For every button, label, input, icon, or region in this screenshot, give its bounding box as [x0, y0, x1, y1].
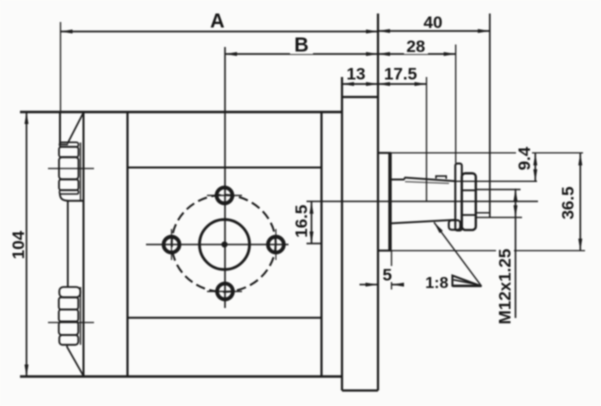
- dimension 36.5 line: [579, 153, 581, 250]
- shaft nut: [462, 173, 476, 230]
- svg-text:13: 13: [347, 64, 366, 83]
- shaft boss bottom edge: [378, 250, 391, 252]
- label 13: [344, 64, 368, 82]
- mounting plate bottom edge: [342, 389, 378, 391]
- shaft taper top edge: [405, 178, 456, 182]
- shaft axis centerline: [307, 200, 539, 202]
- flange square top line: [128, 167, 322, 169]
- dimension 16.5 arrows: [310, 202, 314, 244]
- rear cover left edge between nuts: [67, 201, 69, 287]
- body section line rear: [126, 112, 128, 377]
- extension line for 28: [455, 45, 457, 164]
- bolt hole bottom tick: [207, 290, 242, 292]
- tie-rod nut upper: band 4: [60, 190, 79, 194]
- pump body bottom edge: [20, 375, 341, 378]
- label 1:8: [423, 273, 450, 290]
- dimension A line: [61, 31, 379, 33]
- svg-text:1:8: 1:8: [425, 275, 448, 292]
- label B: [290, 36, 313, 54]
- svg-text:17.5: 17.5: [384, 64, 417, 83]
- dimension 5 left line: [360, 284, 378, 286]
- mounting plate top edge: [342, 96, 378, 98]
- dimension 13 line: [342, 83, 378, 85]
- taper leader line: [434, 222, 482, 286]
- shaft straight section top: [392, 179, 405, 181]
- bolt hole top tick: [207, 194, 242, 196]
- rear cover washer seat line: [60, 144, 68, 146]
- rear cover bottom chamfer: [67, 347, 84, 376]
- taper symbol triangle: [452, 276, 479, 286]
- tie-rod nut upper: band 1: [59, 147, 79, 157]
- thread top line with extension: [456, 180, 538, 182]
- dimension 40 arrows: [378, 29, 490, 33]
- dimension M12 arrows: [514, 189, 518, 217]
- dimension B arrows: [225, 52, 378, 56]
- taper symbol base line: [452, 285, 481, 287]
- boss bottom extension line: [391, 250, 585, 252]
- keyway line: [405, 182, 449, 184]
- svg-text:B: B: [294, 35, 308, 57]
- bolt hole right: [268, 237, 284, 253]
- tie-rod nut lower: band 1: [59, 297, 79, 309]
- dimension 5 arrows: [366, 283, 405, 287]
- tie-rod nut lower: washer cap: [59, 287, 80, 297]
- tie-rod nut upper: band 2 center: [59, 157, 79, 179]
- tie-rod nut upper: seat line: [80, 143, 82, 201]
- shaft step: [404, 177, 406, 179]
- svg-text:5: 5: [382, 266, 391, 285]
- bolt circle dashed: [172, 195, 276, 292]
- mounting plate left edge with extension: [341, 77, 343, 391]
- svg-text:36.5: 36.5: [558, 186, 577, 219]
- dimension 28 line: [378, 53, 456, 55]
- rear cover lower edge stub: [66, 345, 68, 347]
- shaft key: [436, 176, 446, 179]
- thread root top line extension: [476, 189, 521, 191]
- shaft taper bottom edge: [392, 220, 456, 224]
- dimension 17.5 line: [378, 83, 427, 85]
- mounting plate right edge with extension: [377, 14, 379, 391]
- thread root bottom line: [476, 212, 490, 214]
- svg-text:A: A: [210, 11, 224, 33]
- dimension 9.4 line: [534, 153, 536, 181]
- pilot bore circle: [200, 220, 250, 270]
- shaft nut face line 1: [462, 189, 476, 191]
- bolt hole right tick: [275, 229, 277, 260]
- svg-text:104: 104: [9, 230, 28, 259]
- dimension A arrows: [61, 30, 379, 34]
- dimension 36.5 arrows: [578, 153, 582, 250]
- lock washer tab: [449, 220, 461, 230]
- shaft boss face: [388, 153, 391, 251]
- dimension 104 arrows: [25, 112, 29, 377]
- dimension 40 line: [378, 30, 490, 32]
- svg-text:16.5: 16.5: [292, 205, 311, 238]
- rear cover left edge top segment: [59, 112, 61, 145]
- svg-text:M12x1.25: M12x1.25: [495, 249, 514, 325]
- shaft nut face line 2: [462, 214, 476, 216]
- lower nut centerline: [48, 322, 94, 324]
- svg-text:28: 28: [406, 37, 425, 56]
- bolt hole top: [217, 188, 233, 204]
- dimension 28 arrows: [378, 52, 456, 56]
- label 36.5 rotated: [559, 184, 576, 222]
- svg-text:40: 40: [424, 13, 443, 32]
- bolt hole left tick: [171, 229, 173, 260]
- label 5: [380, 266, 394, 282]
- center dot: [221, 241, 227, 247]
- bolt hole left: [164, 237, 180, 253]
- dimension 13 arrows: [342, 82, 378, 86]
- tie-rod nut upper: band 3: [59, 179, 79, 190]
- taper symbol inner line: [454, 280, 475, 284]
- flange square bottom line: [128, 317, 322, 319]
- dimension M12 line: [515, 189, 517, 318]
- taper leader arrowhead: [434, 222, 443, 233]
- boss face extension down: [391, 251, 393, 290]
- flange vertical centerline: [224, 47, 226, 308]
- extension line for 17.5: [426, 77, 428, 201]
- dimension B line: [225, 53, 378, 55]
- dimension 5 right line: [392, 284, 404, 286]
- tie-rod nut upper: washer bowl: [60, 194, 84, 201]
- svg-text:9.4: 9.4: [515, 146, 534, 170]
- tie-rod nut lower: seat line: [80, 287, 82, 345]
- label A: [206, 12, 229, 30]
- shaft boss top edge: [378, 152, 391, 154]
- label M12x1.25 rotated: [496, 249, 514, 323]
- tie-rod nut lower: band 4: [59, 335, 78, 345]
- label 28: [404, 37, 428, 54]
- dimension 9.4 arrows: [533, 153, 537, 181]
- upper nut centerline: [48, 168, 94, 170]
- label 17.5: [381, 64, 420, 82]
- bolt hole bottom: [217, 284, 233, 300]
- pump body top edge: [20, 111, 342, 114]
- flange horizontal centerline: [146, 244, 289, 246]
- label 16.5 rotated: [294, 204, 309, 239]
- shaft end cap and 40 extension: [489, 14, 491, 218]
- body section line front: [320, 112, 322, 377]
- rear cover right edge: [83, 112, 85, 377]
- tie-rod nut lower: band 2: [59, 310, 79, 322]
- extension line for A left: [60, 22, 62, 112]
- tie-rod nut upper: cap: [60, 142, 79, 147]
- dimension 104 line: [26, 112, 28, 377]
- dimension 17.5 arrows: [378, 82, 427, 86]
- label 9.4 rotated: [516, 144, 532, 173]
- thread bottom line with extension: [476, 216, 522, 218]
- centerline stub for 16.5: [307, 243, 323, 245]
- label 40: [421, 13, 445, 30]
- boss top extension line: [391, 152, 583, 154]
- tie-rod nut lower: band 3 center: [59, 322, 79, 336]
- lock washer: [455, 164, 462, 231]
- rear cover top chamfer: [68, 113, 84, 144]
- dimension 16.5 line: [311, 201, 313, 243]
